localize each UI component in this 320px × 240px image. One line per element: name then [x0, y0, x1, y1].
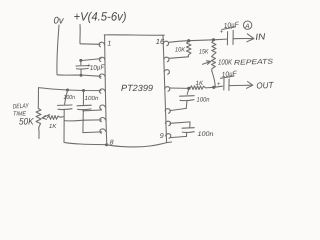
- capacitor C1 10uF supply decoupling: [80, 61, 82, 65]
- node junction cap C1 top: [79, 59, 82, 62]
- pin bump U1 pin4: [99, 89, 105, 93]
- pin bump U1 pin5: [100, 105, 106, 109]
- wire pin13 to R4: [170, 87, 189, 89]
- svg-text:+: +: [217, 81, 221, 88]
- svg-text:50K: 50K: [19, 117, 34, 128]
- svg-text:+V(4.5-6v): +V(4.5-6v): [74, 10, 127, 24]
- resistor R2 10K: [187, 41, 192, 56]
- label C4 plus: [220, 29, 224, 36]
- label C2 100n: [64, 94, 76, 101]
- pin bump U1 pin1: [99, 42, 104, 47]
- svg-text:REPEATS: REPEATS: [234, 58, 274, 66]
- capacitor C3 100n: [82, 91, 84, 105]
- label C5 value 10uF: [221, 70, 237, 79]
- label +V(4.5-6v): [74, 10, 127, 24]
- svg-text:100K: 100K: [218, 58, 233, 67]
- potentiometer VR1 wiper arrow: [42, 115, 50, 119]
- node junction R2 top: [187, 39, 190, 42]
- label C6 100n: [197, 97, 211, 104]
- wire C3 node to pin7: [83, 131, 102, 134]
- label VR2 REPEATS: [234, 58, 274, 66]
- capacitor C4 10uF input coupling: [226, 32, 228, 45]
- capacitor C6 100n: [187, 89, 189, 95]
- svg-text:100n: 100n: [64, 94, 76, 101]
- node junction C2 top: [66, 89, 69, 92]
- potentiometer VR2 wiper arrow: [203, 62, 211, 65]
- pin bump U1 pin14: [164, 70, 169, 74]
- node junction out: [212, 86, 215, 89]
- label VR1 TIME: [13, 110, 27, 117]
- svg-text:10K: 10K: [175, 47, 186, 54]
- label VR1 DELAY: [13, 103, 30, 111]
- resistor R3 15K: [212, 40, 216, 54]
- label OUT: [256, 80, 274, 91]
- label R2 10K: [175, 47, 186, 54]
- label U1 pin 8: [110, 140, 114, 147]
- wire IN arrow: [246, 38, 253, 40]
- label C5 plus: [217, 81, 221, 88]
- wire C3 node to pin6: [83, 119, 101, 121]
- capacitor C7 100n: [182, 127, 194, 130]
- svg-text:PT2399: PT2399: [121, 83, 153, 93]
- wire 0V rail down left side: [57, 25, 59, 74]
- wire pin11 to C7: [170, 122, 190, 128]
- wire delay pot top lead: [37, 88, 39, 109]
- pin bump U1 pin3: [99, 74, 105, 78]
- pin bump U1 pin2: [99, 57, 104, 61]
- svg-text:100n: 100n: [85, 95, 100, 102]
- node A circle: [243, 21, 251, 29]
- wire pin16 to IN cap: [169, 39, 227, 42]
- svg-text:9: 9: [160, 133, 164, 140]
- svg-text:100n: 100n: [197, 97, 211, 104]
- label C4 value 10uF: [223, 21, 239, 30]
- svg-text:IN: IN: [255, 31, 266, 42]
- wire +V to pin1: [80, 43, 100, 46]
- capacitor C5 10uF output coupling: [214, 86, 223, 87]
- wire C3 node down: [82, 111, 84, 133]
- svg-text:1K: 1K: [49, 123, 57, 130]
- pin bump U1 pin15: [164, 57, 169, 61]
- pin bump U1 pin16: [163, 41, 168, 45]
- label VR1 50K: [19, 117, 34, 128]
- label C7 100n: [198, 131, 214, 138]
- pin bump U1 pin10: [166, 134, 171, 138]
- pin bump U1 pin11: [165, 121, 170, 125]
- node junction R4 left / C6 top: [187, 87, 190, 90]
- svg-text:8: 8: [110, 140, 114, 147]
- label node A: [244, 23, 249, 30]
- label VR2 100K: [218, 58, 233, 67]
- svg-text:100n: 100n: [198, 131, 214, 138]
- svg-text:15K: 15K: [199, 49, 209, 56]
- label U1 part number PT2399: [121, 83, 153, 93]
- resistor R1 1K wiper series: [48, 116, 65, 120]
- pin bump U1 pin13: [165, 87, 170, 91]
- potentiometer VR2 100K repeats: [212, 55, 216, 72]
- label IN: [255, 31, 266, 42]
- wire C3 bottom to pin5: [83, 110, 101, 111]
- svg-text:10µF: 10µF: [90, 64, 106, 72]
- label C3 100n: [85, 95, 100, 102]
- node junction pin8: [105, 143, 108, 146]
- svg-text:1K: 1K: [196, 80, 204, 87]
- label 0V: [54, 16, 65, 27]
- wire pot bottom stub: [38, 128, 40, 139]
- capacitor C2 100n: [65, 90, 68, 104]
- label C1 value 10uF: [87, 62, 105, 72]
- svg-text:16: 16: [156, 37, 165, 46]
- label R1 1K: [49, 123, 57, 130]
- wire VR2 bottom to out node: [212, 71, 216, 87]
- op-amp U1 PT2399 IC body: [105, 35, 107, 145]
- pin bump U1 pin6: [100, 118, 106, 122]
- label U1 pin 1: [107, 41, 111, 48]
- node junction C3 top: [82, 89, 85, 92]
- label R4 1K: [196, 80, 204, 87]
- node junction cap C1 bottom on 0V rail: [80, 74, 83, 77]
- resistor R4 1K output: [190, 86, 214, 90]
- wire C6 bottom to pin12: [170, 108, 186, 110]
- wire +V down: [79, 25, 81, 44]
- pin bump U1 pin12: [165, 109, 170, 113]
- wire OUT arrow: [229, 84, 252, 86]
- pin bump U1 pin7: [100, 129, 106, 133]
- wire pin2 to cap C1 top: [81, 59, 101, 61]
- svg-text:A: A: [244, 23, 249, 30]
- wire net pin4 rail with cap taps: [39, 88, 102, 91]
- wire 0V bottom to pin8 corner: [64, 142, 107, 144]
- wire 0V rail horizontal to pin3: [57, 75, 101, 77]
- wire pin15 to R2 bottom: [169, 57, 188, 59]
- potentiometer VR1 50K delay: [36, 109, 41, 129]
- svg-text:1: 1: [107, 41, 111, 48]
- svg-text:DELAY: DELAY: [13, 103, 30, 111]
- wire C7 bottom to pin10: [170, 136, 186, 137]
- label U1 pin 16: [156, 37, 165, 46]
- label U1 pin 9: [160, 133, 164, 140]
- svg-text:OUT: OUT: [256, 80, 274, 91]
- label R3 15K: [199, 49, 209, 56]
- wire link C2 node to C3 node: [65, 119, 83, 122]
- node junction R3 top: [212, 38, 215, 41]
